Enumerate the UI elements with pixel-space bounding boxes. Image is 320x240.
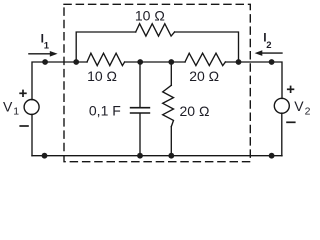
svg-text:20 Ω: 20 Ω xyxy=(189,68,219,84)
svg-text:V: V xyxy=(294,98,304,114)
wire: port-2 top lead to V2 xyxy=(225,62,282,99)
svg-text:2: 2 xyxy=(266,40,271,51)
wire: feedback branch right riser xyxy=(175,32,239,62)
node dot capacitor bottom xyxy=(137,153,143,159)
node dot port2 bottom xyxy=(269,153,275,159)
minus sign V2 xyxy=(286,121,295,123)
wire: shunt resistor bottom lead xyxy=(170,127,172,156)
voltage source V1 xyxy=(24,100,39,115)
node dot port1 top xyxy=(42,59,48,65)
node dot shunt resistor top xyxy=(168,59,174,65)
wire: capacitor bottom lead xyxy=(139,113,141,155)
current arrow I2 head xyxy=(255,50,263,56)
node dot feedback return xyxy=(236,59,242,65)
current arrow I2 line xyxy=(261,52,282,54)
wire: feedback branch left riser xyxy=(76,32,136,62)
resistor 10 ohm series xyxy=(87,53,125,65)
minus sign V1 xyxy=(19,125,28,127)
resistor 20 ohm shunt xyxy=(163,85,174,126)
wire: capacitor top lead xyxy=(139,62,141,107)
plus sign V1 xyxy=(19,92,26,94)
wire: shunt resistor top lead xyxy=(170,62,172,85)
svg-text:0,1 F: 0,1 F xyxy=(89,102,121,118)
node dot shunt resistor bottom xyxy=(168,153,174,159)
capacitor C 0,1 F plates xyxy=(131,107,150,109)
node dot capacitor top xyxy=(137,59,143,65)
wire: port-1 top lead from V1 to R 10 ohm xyxy=(32,62,87,100)
current arrow I1 head xyxy=(50,51,58,57)
svg-text:10 Ω: 10 Ω xyxy=(135,7,165,23)
svg-text:V: V xyxy=(3,98,13,114)
node dot port1 bottom xyxy=(42,153,48,159)
plus sign V2 xyxy=(287,88,294,90)
wire: bottom rail xyxy=(32,155,282,157)
node dot feedback tap left xyxy=(73,59,79,65)
voltage source V2 xyxy=(274,98,289,113)
svg-text:1: 1 xyxy=(44,41,50,52)
current arrow I1 line xyxy=(29,53,51,55)
node dot port2 top xyxy=(269,59,275,65)
svg-text:20 Ω: 20 Ω xyxy=(180,103,210,119)
resistor 10 ohm feedback xyxy=(136,24,175,36)
svg-text:10 Ω: 10 Ω xyxy=(87,68,117,84)
resistor 20 ohm series xyxy=(185,53,225,65)
wire: V2 bottom lead xyxy=(281,113,283,156)
dashed two-port network box xyxy=(64,4,250,161)
wire: V1 bottom lead xyxy=(31,114,33,155)
svg-text:2: 2 xyxy=(305,106,311,118)
wire between series resistors xyxy=(125,61,185,63)
svg-text:1: 1 xyxy=(13,106,19,118)
